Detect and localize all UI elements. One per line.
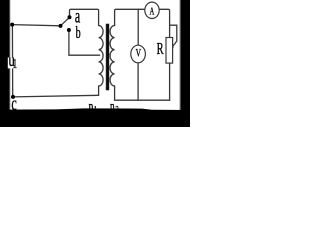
svg-text:1: 1 — [13, 56, 18, 71]
svg-text:b: b — [76, 23, 81, 41]
svg-text:A: A — [150, 6, 155, 17]
svg-text:R: R — [157, 41, 164, 59]
svg-text:V: V — [136, 47, 142, 60]
